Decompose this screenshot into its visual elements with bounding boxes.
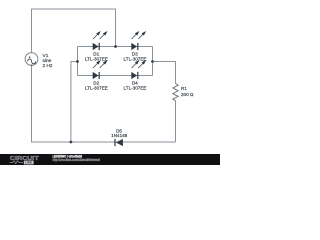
svg-text:D2: D2 <box>93 80 99 85</box>
wire LED row 2 <box>78 75 153 77</box>
node junction row1 center <box>114 45 117 48</box>
node junction bottom rail <box>70 141 73 144</box>
wire R1 bottom lead <box>175 101 177 143</box>
wire left bridge edge <box>77 47 79 76</box>
LED D3 LTL-307EE <box>124 32 147 62</box>
node junction right tap <box>151 60 154 63</box>
svg-text:LTL-307EE: LTL-307EE <box>124 86 147 91</box>
wire left tap to bottom rail <box>71 62 78 143</box>
svg-text:R1: R1 <box>181 86 187 91</box>
svg-text:LTL-307EE: LTL-307EE <box>124 57 147 62</box>
node junction left tap <box>76 60 79 63</box>
LED D1 LTL-307EE <box>85 32 108 62</box>
wire LED row 1 <box>78 46 153 48</box>
svg-text:V1: V1 <box>43 53 49 59</box>
svg-text:1N4148: 1N4148 <box>111 133 128 138</box>
footer bar <box>0 154 220 165</box>
svg-text:LTL-307EE: LTL-307EE <box>85 86 108 91</box>
LED D4 LTL-307EE <box>124 61 147 91</box>
svg-text:2 Hz: 2 Hz <box>43 63 53 69</box>
svg-text:200 Ω: 200 Ω <box>181 92 194 97</box>
wire V1 top lead, top rail, and drop to bridge center node <box>32 9 116 53</box>
svg-text:D4: D4 <box>132 80 138 85</box>
svg-text:http://circuitlab.com/c/3km448: http://circuitlab.com/c/3km448/ledrwo5 <box>53 158 101 162</box>
resistor R1 200 Ohm <box>173 84 194 101</box>
svg-text:LAB: LAB <box>25 161 32 165</box>
source V1 sine 2 Hz <box>25 53 53 69</box>
diode D5 1N4148 <box>111 128 128 146</box>
wire V1 bottom lead and bottom rail <box>32 65 176 142</box>
svg-text:D3: D3 <box>132 51 138 56</box>
wire right bridge edge <box>152 47 154 76</box>
LED D2 LTL-307EE <box>85 61 108 91</box>
svg-text:D1: D1 <box>93 51 99 56</box>
svg-text:LTL-307EE: LTL-307EE <box>85 57 108 62</box>
wire right tap to R1 <box>153 62 176 84</box>
